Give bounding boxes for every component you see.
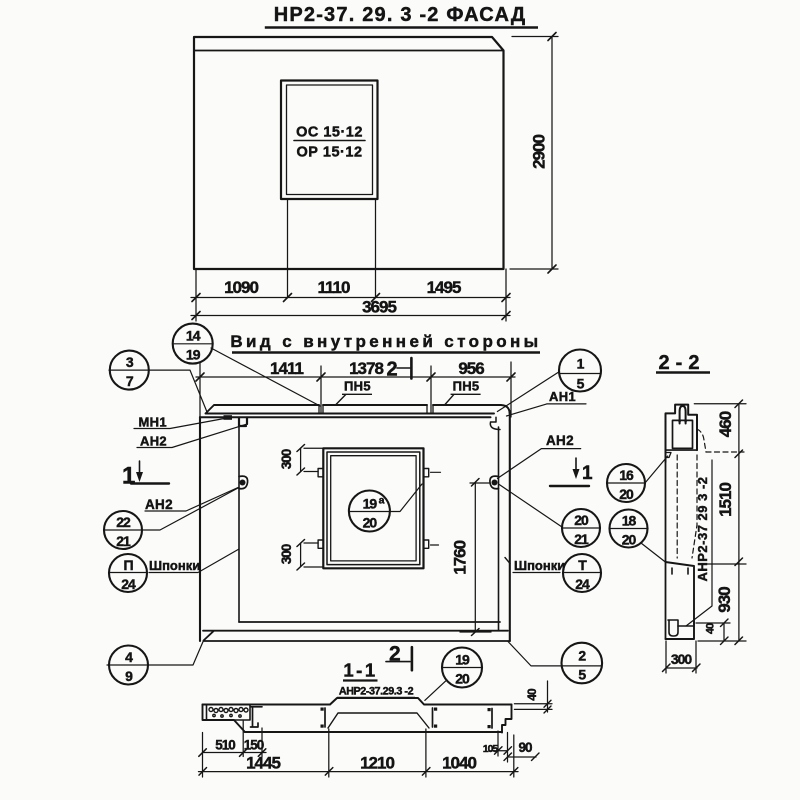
svg-text:24: 24 [121, 576, 136, 592]
svg-text:24: 24 [575, 576, 590, 592]
svg-text:Шпонки: Шпонки [514, 558, 565, 573]
svg-text:АНР2-37 29 3 -2: АНР2-37 29 3 -2 [695, 476, 710, 581]
svg-text:21: 21 [574, 531, 589, 547]
svg-text:20: 20 [363, 515, 378, 531]
svg-text:ПН5: ПН5 [344, 379, 371, 394]
svg-text:1: 1 [582, 463, 593, 484]
svg-text:1411: 1411 [270, 359, 303, 378]
svg-text:НР2-37. 29. 3 -2 ФАСАД: НР2-37. 29. 3 -2 ФАСАД [274, 4, 527, 26]
svg-text:5: 5 [578, 666, 586, 682]
svg-text:300: 300 [671, 651, 693, 667]
svg-text:40: 40 [525, 688, 539, 701]
svg-text:20: 20 [619, 486, 634, 502]
svg-text:300: 300 [279, 544, 294, 564]
svg-text:1510: 1510 [716, 483, 735, 517]
svg-text:18: 18 [622, 513, 637, 529]
svg-text:5: 5 [577, 376, 585, 392]
svg-text:1040: 1040 [442, 754, 476, 773]
svg-text:Вид с внутренней стороны: Вид с внутренней стороны [230, 332, 541, 351]
svg-text:ПН5: ПН5 [453, 379, 480, 394]
svg-text:1760: 1760 [451, 540, 470, 574]
svg-text:АН1: АН1 [549, 389, 576, 404]
svg-text:20: 20 [622, 532, 637, 548]
svg-text:АН2: АН2 [546, 433, 574, 448]
svg-text:14: 14 [186, 328, 201, 344]
svg-text:150: 150 [244, 738, 264, 753]
svg-text:2900: 2900 [530, 135, 549, 169]
svg-text:22: 22 [116, 514, 131, 530]
svg-text:1495: 1495 [427, 278, 461, 297]
svg-text:АНР2-37.29.3 -2: АНР2-37.29.3 -2 [339, 686, 414, 698]
svg-text:ОР 15·12: ОР 15·12 [296, 145, 362, 161]
svg-text:4: 4 [125, 649, 133, 665]
svg-text:21: 21 [116, 533, 131, 549]
svg-text:2: 2 [389, 643, 400, 666]
svg-text:2: 2 [578, 647, 586, 663]
svg-text:П: П [123, 557, 133, 573]
svg-text:1445: 1445 [246, 754, 280, 773]
svg-text:Шпонки: Шпонки [149, 558, 200, 573]
svg-text:1: 1 [577, 356, 585, 372]
svg-text:ОС 15·12: ОС 15·12 [296, 125, 363, 141]
svg-text:930: 930 [715, 587, 734, 613]
svg-text:1-1: 1-1 [343, 660, 377, 681]
svg-text:300: 300 [279, 449, 294, 469]
svg-text:7: 7 [126, 373, 134, 389]
svg-text:1090: 1090 [224, 278, 258, 297]
svg-text:105: 105 [483, 743, 499, 755]
svg-text:1378: 1378 [349, 359, 383, 378]
svg-text:Т: Т [578, 557, 587, 573]
svg-text:3: 3 [126, 354, 134, 370]
svg-text:МН1: МН1 [139, 415, 167, 430]
svg-text:2-2: 2-2 [659, 352, 706, 374]
svg-text:19: 19 [455, 652, 470, 668]
svg-text:20: 20 [574, 512, 589, 528]
svg-text:90: 90 [518, 740, 532, 755]
svg-text:20: 20 [455, 671, 470, 687]
svg-text:2: 2 [387, 359, 398, 381]
svg-text:40: 40 [705, 623, 717, 634]
svg-text:510: 510 [215, 738, 235, 753]
svg-text:3695: 3695 [362, 298, 396, 317]
svg-text:1210: 1210 [360, 754, 394, 773]
svg-text:19: 19 [186, 347, 201, 363]
svg-text:1: 1 [122, 463, 135, 490]
svg-text:1110: 1110 [318, 278, 350, 297]
svg-text:19: 19 [363, 496, 378, 512]
svg-text:956: 956 [458, 359, 484, 378]
svg-text:АН2: АН2 [145, 497, 173, 512]
svg-text:9: 9 [125, 668, 133, 684]
svg-text:16: 16 [619, 467, 634, 483]
svg-text:460: 460 [716, 411, 735, 437]
svg-text:АН2: АН2 [140, 434, 167, 449]
